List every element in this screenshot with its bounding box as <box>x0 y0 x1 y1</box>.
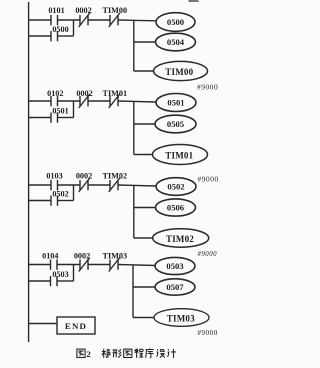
wire rung2 main segment b <box>58 100 80 102</box>
contact 0502 (NO, parallel) <box>51 196 58 206</box>
wire rung1 main segment b <box>58 19 80 21</box>
wire rung2 main segment a <box>28 100 51 102</box>
svg-text:0002: 0002 <box>74 252 90 261</box>
svg-text:TIM00: TIM00 <box>165 67 193 77</box>
coil 0505 <box>155 115 196 133</box>
contact TIM02 (NC) <box>109 178 120 192</box>
wire stub to coil TIM02 <box>134 237 153 239</box>
artifact tick <box>189 0 199 2</box>
contact TIM03 (NC) <box>109 258 120 272</box>
svg-text:0501: 0501 <box>52 107 68 116</box>
wire stub to coil TIM03 <box>133 317 154 319</box>
svg-text:0104: 0104 <box>42 252 58 261</box>
coil 0503 <box>155 257 195 274</box>
coil 0500 <box>156 13 195 32</box>
wire rung4 parallel branch to junction <box>58 280 74 282</box>
wire rung2 main segment d to coil 0501 <box>119 101 157 102</box>
wire rung1 parallel branch riser <box>73 20 75 37</box>
left power rail <box>28 2 30 342</box>
wire rung4 main segment c <box>89 264 110 266</box>
char 序 <box>146 349 154 358</box>
wire rung3 output branch vertical <box>133 185 135 238</box>
wire rung3 main segment a <box>28 184 51 186</box>
wire rung1 main segment a <box>28 19 51 21</box>
coil TIM02 <box>153 229 209 247</box>
wire rung2 main segment c <box>89 100 110 102</box>
wire rung1 parallel branch to junction <box>58 35 74 37</box>
svg-text:#9000: #9000 <box>198 175 219 184</box>
svg-text:0504: 0504 <box>167 37 185 47</box>
char 形 <box>113 349 122 357</box>
svg-text:0503: 0503 <box>52 270 68 279</box>
contact 0103 (NO) <box>51 180 58 190</box>
contact 0002 rung2 (NC) <box>79 94 90 108</box>
wire rung3 parallel branch riser <box>73 185 75 201</box>
char 程 <box>134 349 143 358</box>
svg-text:TIM03: TIM03 <box>167 313 195 323</box>
svg-text:0103: 0103 <box>46 172 62 181</box>
wire rung2 parallel branch lower <box>28 117 51 119</box>
svg-text:0506: 0506 <box>167 203 185 213</box>
contact 0501 (NO, parallel) <box>51 113 58 123</box>
wire rung2 parallel branch riser <box>73 101 75 118</box>
END block <box>57 317 95 334</box>
svg-text:0101: 0101 <box>48 6 64 15</box>
svg-text:0102: 0102 <box>47 89 63 98</box>
coil TIM00 <box>154 61 208 80</box>
char 图 <box>77 349 85 357</box>
contact 0104 (NO) <box>51 260 58 270</box>
wire rung3 main segment c <box>89 184 110 186</box>
contact 0002 rung4 (NC) <box>79 258 90 272</box>
wire rung2 output branch vertical <box>133 101 135 155</box>
contact 0503 (NO, parallel) <box>51 276 58 286</box>
coil 0502 <box>156 178 196 196</box>
svg-text:0502: 0502 <box>52 190 68 199</box>
char 梯 <box>102 349 111 358</box>
svg-text:END: END <box>65 321 87 331</box>
contact 0002 (NC) <box>79 13 90 27</box>
svg-text:TIM02: TIM02 <box>166 234 194 244</box>
wire rung3 parallel branch to junction <box>58 200 74 202</box>
wire stub to coil 0507 <box>133 286 155 288</box>
svg-text:0502: 0502 <box>167 182 184 192</box>
contact 0101 (NO) <box>51 15 58 25</box>
wire rung4 main segment b <box>58 264 80 266</box>
coil 0504 <box>156 33 196 51</box>
wire rung1 main segment c <box>89 19 110 21</box>
wire rung1 output branch vertical <box>133 20 135 71</box>
svg-text:0507: 0507 <box>166 282 184 292</box>
svg-text:#9000: #9000 <box>197 83 218 92</box>
svg-text:TIM03: TIM03 <box>103 252 128 261</box>
coil TIM03 <box>154 309 209 327</box>
wire rung3 parallel branch lower <box>28 200 51 202</box>
char 设 <box>156 349 164 357</box>
wire rung4 parallel branch riser <box>73 264 75 281</box>
wire rung3 main segment d to coil 0502 <box>119 185 157 186</box>
wire rung4 output branch vertical <box>132 265 134 318</box>
char 计 <box>167 349 176 358</box>
svg-text:0500: 0500 <box>52 25 68 34</box>
svg-text:0501: 0501 <box>167 98 184 108</box>
wire stub to coil 0506 <box>134 207 156 209</box>
svg-text:TIM00: TIM00 <box>103 6 128 15</box>
svg-text:0002: 0002 <box>76 89 92 98</box>
svg-text:TIM02: TIM02 <box>103 172 128 181</box>
svg-text:TIM01: TIM01 <box>165 150 193 160</box>
contact TIM00 (NC) <box>109 13 120 27</box>
wire rung1 parallel branch lower <box>28 35 51 37</box>
svg-text:0002: 0002 <box>75 6 91 15</box>
char 图 <box>124 349 132 357</box>
contact TIM01 (NC) <box>109 94 120 108</box>
wire stub to coil TIM01 <box>134 154 153 156</box>
contact 0102 (NO) <box>51 96 58 106</box>
wire rung4 parallel branch lower <box>28 280 50 282</box>
wire rung3 main segment b <box>58 184 80 186</box>
wire rung4 main segment a <box>28 264 50 266</box>
coil 0501 <box>156 94 196 112</box>
svg-text:TIM01: TIM01 <box>103 89 128 98</box>
coil 0506 <box>156 199 196 216</box>
svg-text:0505: 0505 <box>167 119 184 129</box>
wire rung4 main segment d to coil 0503 <box>119 265 157 266</box>
svg-text:0002: 0002 <box>76 172 92 181</box>
contact 0002 rung3 (NC) <box>79 178 90 192</box>
coil TIM01 <box>153 145 208 165</box>
svg-text:#9000: #9000 <box>198 329 218 337</box>
wire rung1 main segment d to coil 0500 <box>119 19 157 22</box>
wire END rung <box>28 323 57 325</box>
wire stub to coil 0505 <box>134 123 155 125</box>
caption: 图 2 梯形图程序设计 <box>77 349 176 360</box>
wire stub to coil 0504 <box>134 41 156 43</box>
coil 0507 <box>155 279 195 295</box>
wire stub to coil TIM00 <box>134 70 154 72</box>
wire rung2 parallel branch to junction <box>58 117 74 119</box>
svg-text:2: 2 <box>86 349 91 359</box>
svg-text:#9000: #9000 <box>198 251 218 258</box>
contact 0500 (NO, parallel) <box>51 31 58 41</box>
svg-text:0503: 0503 <box>166 261 183 271</box>
svg-text:0500: 0500 <box>167 17 184 27</box>
